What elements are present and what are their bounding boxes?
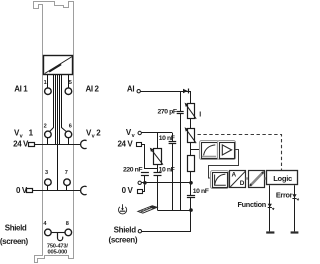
- wire between limiters: [190, 118, 192, 128]
- 24V square terminal: [137, 143, 142, 147]
- contact circle 2: [45, 131, 52, 138]
- 24V branch wire: [142, 145, 145, 170]
- svg-text:AI 2: AI 2: [86, 84, 100, 93]
- capacitor 270pF: [177, 111, 184, 113]
- wire below 270pF to FE rail: [180, 114, 182, 210]
- wire below limiter 2: [190, 143, 192, 156]
- svg-text:10 nF: 10 nF: [193, 188, 209, 195]
- svg-text:7: 7: [65, 170, 68, 176]
- 24V rail wire: [34, 144, 81, 146]
- svg-text:8: 8: [66, 221, 69, 227]
- capacitor 10nF below varistor: [154, 172, 162, 174]
- svg-text:220 nF: 220 nF: [123, 167, 142, 174]
- wire below to FE rail: [172, 143, 174, 210]
- current limiter 2 arrow: [186, 129, 196, 143]
- shield wire to riser: [142, 231, 191, 233]
- dashed control line from limiter to Logic: [198, 135, 282, 171]
- Logic box: [267, 171, 298, 185]
- Vv terminal circle: [138, 131, 141, 134]
- varistor stub from Vv wire: [157, 133, 159, 148]
- amplifier block A outer: [200, 141, 219, 160]
- current limiter 2 box: [188, 129, 195, 143]
- contact circle 8: [65, 229, 72, 236]
- svg-text:AI: AI: [127, 85, 134, 94]
- varistor box: [154, 149, 162, 165]
- AI wire: [140, 91, 191, 93]
- wire below 10nF to FE rail: [157, 175, 159, 210]
- nub: [265, 177, 267, 179]
- current limiter 1 arrow: [186, 105, 196, 119]
- contact circle 6: [65, 131, 72, 138]
- Logic left output wire: [269, 185, 271, 231]
- isolation box: [249, 171, 265, 188]
- contact numbers: [43, 80, 72, 227]
- 0V rail to chain: [141, 182, 191, 184]
- Vv wire: [141, 132, 172, 134]
- AI terminal circle: [137, 90, 140, 93]
- svg-text:24 V: 24 V: [117, 140, 133, 149]
- stub contact 5: [68, 75, 70, 88]
- lower curve block outer: [211, 171, 229, 189]
- junction dot 0V rail: [189, 181, 193, 185]
- svg-text:A: A: [232, 172, 237, 179]
- svg-text:5: 5: [69, 80, 72, 86]
- wire below resistor: [190, 171, 192, 195]
- stub contact 3 to 0V rail: [47, 186, 49, 191]
- stub to amplifier: [191, 149, 201, 151]
- contact circle 5: [65, 88, 72, 95]
- junction dot FE rail: [189, 208, 193, 212]
- stub contact 7 to 0V rail: [66, 186, 68, 191]
- contact circle 1: [45, 88, 52, 95]
- amplifier block A inner: [202, 143, 218, 159]
- shield terminal circle: [138, 230, 141, 233]
- svg-text:0 V: 0 V: [122, 186, 134, 195]
- chain down from AI wire: [190, 91, 192, 103]
- svg-text:2: 2: [44, 123, 47, 129]
- svg-text:005-000: 005-000: [48, 250, 68, 256]
- wire below varistor: [157, 164, 159, 173]
- stub contact 2 to 24V rail: [47, 138, 49, 145]
- varistor arrow: [151, 150, 163, 165]
- Logic right output wire: [294, 185, 296, 231]
- lower curve block inner: [213, 173, 228, 188]
- current limiter 1 box: [188, 104, 195, 119]
- 270pF branch from AI wire: [180, 91, 182, 112]
- 24V right spring contact arc: [81, 140, 87, 148]
- FE rail wire: [157, 210, 191, 212]
- shield hook to carrier rail: [58, 232, 63, 240]
- svg-text:Shield: Shield: [5, 224, 27, 233]
- wire below cap to FE rail: [190, 198, 192, 231]
- 0V square stub up to rail: [143, 185, 145, 192]
- svg-text:Error: Error: [276, 190, 293, 199]
- module outline (750 series housing, grey): [34, 2, 74, 263]
- functional earth symbol: [119, 204, 127, 214]
- svg-text:(screen): (screen): [0, 237, 29, 246]
- internal bus wires: [48, 75, 69, 191]
- svg-text:2: 2: [96, 129, 101, 138]
- stub contact 6 to 24V rail: [68, 138, 70, 145]
- wire bus line d (to 24V rail): [59, 75, 61, 144]
- nub: [246, 177, 249, 179]
- wire bus line c (to 0V rail): [57, 75, 59, 191]
- svg-text:D: D: [240, 180, 245, 187]
- resistor box: [188, 156, 195, 172]
- svg-text:24 V: 24 V: [13, 140, 29, 149]
- svg-text:6: 6: [69, 123, 72, 129]
- svg-text:1: 1: [44, 80, 47, 86]
- svg-text:Shield: Shield: [114, 225, 137, 234]
- 24V power jumper square: [29, 143, 35, 147]
- shield link wire between contacts 4 and 8: [51, 232, 65, 234]
- capacitor 220nF: [141, 172, 149, 174]
- 0V rail wire: [33, 190, 81, 192]
- svg-text:Logic: Logic: [273, 174, 292, 183]
- svg-text:(screen): (screen): [108, 236, 137, 245]
- wire bus line a (to contact 2): [50, 75, 54, 132]
- carrier rail symbol: [138, 206, 157, 213]
- capacitor 10nF on chain: [187, 195, 195, 197]
- contact circle 3: [45, 179, 52, 186]
- Error LED: [292, 194, 296, 198]
- transducer box with diagonal: [44, 56, 73, 75]
- wire bus line b (to 24V rail): [55, 75, 57, 144]
- contact circle 4: [45, 229, 52, 236]
- svg-text:1: 1: [29, 129, 34, 138]
- A/D converter box: [230, 171, 246, 188]
- Function LED: [268, 204, 272, 208]
- svg-text:Function: Function: [237, 200, 265, 209]
- svg-text:270 pF: 270 pF: [157, 109, 176, 116]
- contact circle 7: [64, 179, 71, 186]
- ground bar right: [291, 231, 299, 233]
- tee 24V branch to varistor branch: [145, 168, 158, 170]
- capacitor 10nF on Vv branch: [169, 141, 177, 143]
- svg-text:3: 3: [45, 170, 48, 176]
- junction dot 24V/0V: [143, 181, 147, 185]
- 0V power jumper square: [27, 189, 33, 193]
- ground bar left: [266, 231, 274, 233]
- stub contact 1: [47, 75, 49, 88]
- wire bus line e (to contact 6): [62, 75, 67, 132]
- diode on AI wire: [183, 89, 188, 94]
- svg-text:0 V: 0 V: [16, 186, 28, 195]
- amplifier block B inner (op-amp triangle): [220, 143, 235, 159]
- 0V terminal circle: [138, 181, 141, 184]
- wire elbow from amplifier to lower row: [209, 150, 239, 179]
- Vv right branch down: [172, 133, 174, 141]
- 0V square terminal: [138, 190, 143, 194]
- 0V right spring contact arc: [81, 186, 87, 194]
- wire below 220nF: [144, 175, 146, 183]
- svg-text:AI 1: AI 1: [14, 84, 28, 93]
- amplifier block B outer: [218, 141, 236, 160]
- svg-text:750-473/: 750-473/: [47, 243, 68, 249]
- nub: [229, 177, 230, 179]
- svg-text:I: I: [199, 112, 201, 119]
